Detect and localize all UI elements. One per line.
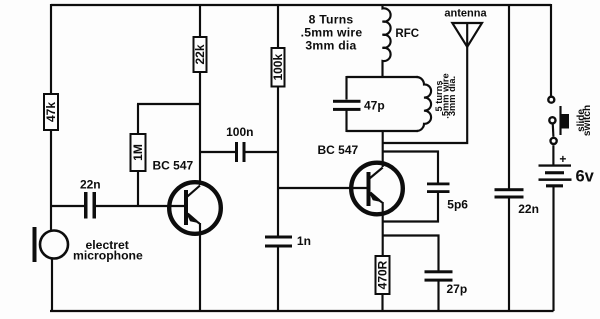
- antenna: [452, 23, 482, 47]
- wire top supply rail: [51, 4, 551, 6]
- resistor R1 47k: [44, 94, 58, 130]
- capacitor C6 27p: [425, 270, 468, 296]
- svg-text:switch: switch: [582, 105, 593, 136]
- capacitor C3 1n: [265, 234, 311, 248]
- wire switch to battery: [552, 145, 554, 164]
- svg-text:1M: 1M: [131, 144, 145, 161]
- svg-text:8 Turns: 8 Turns: [309, 13, 354, 27]
- battery BT1 6v: [539, 152, 595, 187]
- label L2 winding spec: [434, 73, 457, 118]
- wire 47k to microphone: [50, 130, 52, 231]
- wire emitter to 27p: [383, 236, 439, 272]
- svg-text:6v: 6v: [576, 168, 595, 186]
- svg-text:22n: 22n: [80, 178, 101, 192]
- wire bottom ground rail: [50, 310, 554, 312]
- transistor Q2 BC547: [351, 163, 403, 215]
- resistor R5 470R: [376, 256, 390, 294]
- svg-text:1n: 1n: [297, 234, 311, 248]
- svg-text:5p6: 5p6: [447, 197, 468, 211]
- wire microphone to ground rail: [51, 259, 53, 312]
- svg-text:BC 547: BC 547: [153, 159, 194, 173]
- transistor Q1 BC547: [169, 182, 221, 234]
- electret microphone MIC1: [33, 227, 143, 263]
- label L1 winding spec: [301, 13, 363, 53]
- inductor L1 RFC: [383, 4, 391, 77]
- svg-text:100n: 100n: [226, 125, 253, 139]
- svg-text:100k: 100k: [271, 54, 285, 81]
- svg-text:27p: 27p: [447, 282, 468, 296]
- capacitor C4 47p: [333, 99, 385, 113]
- svg-text:microphone: microphone: [73, 249, 143, 263]
- wire tank bottom: [347, 130, 419, 132]
- slide switch SW1: [548, 97, 593, 144]
- wire 1M top: [137, 104, 139, 134]
- wire collector to 5p6: [383, 152, 438, 184]
- wire Q2 collector to tank: [382, 131, 384, 167]
- capacitor C2 100n: [226, 125, 253, 162]
- svg-text:470R: 470R: [376, 260, 390, 289]
- inductor L2 tank coil: [417, 77, 432, 131]
- wire top rail right end to switch: [550, 4, 552, 96]
- wire 1M bottom to base line: [137, 171, 139, 207]
- svg-text:47p: 47p: [364, 99, 385, 113]
- wire Q1 emitter to ground rail: [199, 223, 201, 311]
- capacitor C5 5p6: [427, 183, 468, 212]
- wire battery to ground rail: [552, 187, 554, 311]
- resistor R4 100k: [271, 48, 285, 87]
- wire top rail to 47k: [50, 4, 52, 94]
- wire 22k to top rail: [199, 4, 201, 37]
- svg-text:47k: 47k: [44, 102, 58, 122]
- wire base node to Q2 base: [278, 187, 367, 189]
- wire 1n to ground rail: [277, 248, 279, 312]
- wire Q2 emitter to 470R: [382, 202, 384, 256]
- svg-text:3mm dia.: 3mm dia.: [447, 76, 457, 116]
- wire node base line to 22n: [51, 205, 85, 207]
- wire antenna feed to collector node: [383, 46, 467, 143]
- wire 5p6 to emitter: [383, 193, 438, 222]
- wire 27p to ground rail: [437, 282, 439, 312]
- wire tank top: [347, 76, 419, 78]
- wire top rail to 100k: [277, 4, 279, 48]
- wire 100n to 100k line: [246, 151, 279, 153]
- capacitor C1 22n: [80, 178, 101, 219]
- wire 100k down to 1n: [277, 87, 279, 237]
- svg-text:+: +: [559, 152, 566, 166]
- svg-text:3mm dia: 3mm dia: [305, 38, 356, 52]
- svg-text:BC 547: BC 547: [318, 143, 359, 157]
- wire top rail to 22n bypass: [508, 4, 510, 189]
- svg-text:22k: 22k: [193, 44, 207, 64]
- wire tank left top segment: [345, 76, 347, 100]
- resistor R2 22k: [193, 37, 207, 72]
- resistor R3 1M: [131, 134, 146, 171]
- wire 22n to Q1 base: [96, 205, 185, 207]
- capacitor C7 22n: [495, 188, 539, 216]
- wire Q1 collector to 22k: [199, 72, 201, 185]
- wire tank left bottom segment: [345, 110, 347, 132]
- wire 1M to collector node: [137, 103, 200, 105]
- wire 470R to ground rail: [381, 294, 383, 311]
- svg-text:RFC: RFC: [395, 28, 419, 40]
- svg-text:antenna: antenna: [444, 7, 487, 19]
- svg-text:22n: 22n: [518, 202, 539, 216]
- wire 22n bypass to ground rail: [508, 199, 510, 312]
- wire collector node to 100n: [200, 151, 236, 153]
